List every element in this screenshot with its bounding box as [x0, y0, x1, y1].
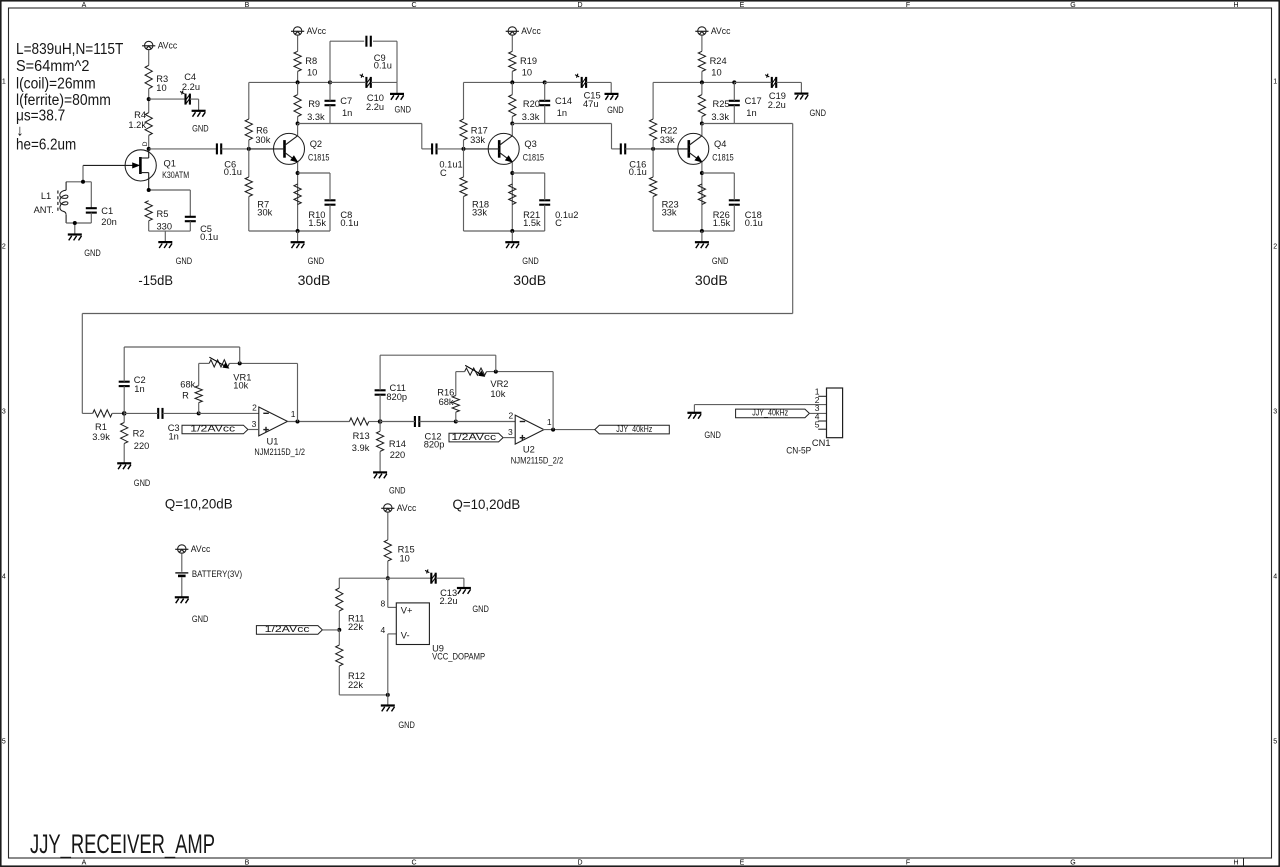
wire C5 to bottom rail	[189, 221, 191, 231]
wire node B to 68k	[198, 403, 200, 414]
svg-text:Q1: Q1	[164, 159, 176, 169]
svg-text:S=64mm^2: S=64mm^2	[16, 58, 89, 75]
junction bottom rail stage 4	[700, 229, 704, 233]
svg-text:L1: L1	[41, 191, 51, 201]
svg-text:R24: R24	[710, 56, 727, 66]
svg-text:C: C	[411, 2, 416, 9]
ground (antenna tank)	[68, 235, 101, 259]
resistor R8 10	[294, 51, 317, 77]
junction node A	[122, 411, 127, 416]
wire collector node rail	[298, 123, 330, 125]
svg-text:AVcc: AVcc	[158, 41, 178, 51]
resistor R22 33k	[650, 119, 678, 145]
resistor R5 330	[145, 201, 172, 232]
svg-text:220: 220	[134, 441, 150, 451]
net label 1/2AVcc (U1 pin3)	[182, 424, 248, 434]
svg-text:AVcc: AVcc	[191, 544, 211, 554]
wire C9 loop right	[396, 41, 398, 82]
ground (stage 1)	[158, 242, 192, 266]
ground (stage 3)	[505, 242, 539, 266]
svg-text:A: A	[82, 860, 87, 867]
net label 1/2AVcc (U2 pin3)	[449, 432, 503, 442]
wire emitter Q4 down	[701, 162, 703, 231]
wire R25 to collector node	[701, 117, 703, 124]
wire C2 rail down to VR1 line	[239, 347, 241, 363]
wire C1 to tank bottom	[90, 213, 92, 223]
capacitor C16 0.1u (coupling stage3-4)	[621, 143, 647, 177]
capacitor C11 820p	[375, 383, 407, 402]
wire rail to R25	[701, 82, 703, 94]
wire R15 to node E	[387, 561, 389, 578]
wire bias column stage 3 upper	[463, 82, 465, 119]
junction emitter node Q2	[296, 171, 300, 175]
capacitor C10 labels	[366, 93, 384, 112]
wire R4 to drain node	[148, 135, 150, 149]
junction source node	[147, 188, 151, 192]
capacitor C18 0.1u	[729, 200, 763, 228]
capacitor C15 47u (electrolytic)	[575, 74, 586, 88]
ground (C13)	[457, 588, 489, 614]
capacitor 0.1u2 C	[539, 200, 578, 228]
svg-text:C: C	[555, 218, 562, 228]
junction supply rail / R20	[510, 80, 514, 84]
svg-text:30dB: 30dB	[513, 272, 546, 288]
svg-text:1.5k: 1.5k	[308, 218, 326, 228]
wire collector node rail	[512, 123, 544, 125]
wire R16 to VR2	[455, 372, 457, 396]
svg-text:10: 10	[711, 68, 721, 78]
wire rail to R9	[297, 82, 299, 94]
svg-text:VCC_DOPAMP: VCC_DOPAMP	[432, 652, 485, 662]
wire R18 to bottom rail	[463, 197, 465, 232]
svg-text:GND: GND	[308, 256, 325, 266]
gain label Q=10,20dB (U2)	[453, 496, 521, 512]
svg-text:1n: 1n	[342, 108, 352, 118]
svg-text:GND: GND	[607, 105, 624, 115]
svg-text:U1: U1	[267, 436, 279, 446]
junction divider node	[337, 628, 341, 632]
svg-text:C1815: C1815	[308, 153, 329, 163]
svg-text:1: 1	[547, 417, 552, 427]
svg-text:0.1u: 0.1u	[745, 218, 763, 228]
wire GND net to CN1 pin2	[694, 404, 826, 406]
ground (stage 2)	[291, 242, 325, 266]
inductor L1 ANT. (antenna bar coil)	[34, 182, 68, 223]
svg-text:Q2: Q2	[310, 139, 322, 149]
op-amp supply block U9 VCC_DOPAMP	[396, 603, 485, 662]
annotation text block (coil parameters)	[16, 41, 124, 154]
gain label 30dB (stage 3)	[513, 272, 546, 288]
junction base node Q2	[247, 147, 251, 151]
wire node E to V+ pin	[388, 578, 397, 607]
svg-text:GND: GND	[810, 108, 827, 118]
svg-text:1: 1	[2, 79, 6, 86]
svg-text:C1815: C1815	[523, 153, 544, 163]
svg-text:BATTERY(3V): BATTERY(3V)	[192, 569, 242, 579]
svg-text:AVcc: AVcc	[711, 26, 731, 36]
wire drain node to C6	[149, 148, 217, 150]
svg-text:8: 8	[380, 599, 385, 609]
power symbol AVcc (battery)	[175, 544, 210, 554]
svg-text:L=839uH,N=115T: L=839uH,N=115T	[16, 41, 124, 58]
wire supply rail stage 3	[464, 81, 582, 83]
svg-text:GND: GND	[522, 256, 539, 266]
wire stage4 output long bus	[82, 124, 792, 414]
junction drain node Q1	[147, 147, 151, 151]
resistor R12 22k	[336, 645, 365, 690]
wire collector node to Q2	[297, 124, 299, 136]
svg-text:Q=10,20dB: Q=10,20dB	[453, 496, 521, 512]
ground (R2)	[117, 463, 150, 488]
svg-text:33k: 33k	[472, 207, 487, 217]
svg-text:Q3: Q3	[524, 139, 536, 149]
ground (CN1 pin2)	[687, 413, 721, 440]
svg-text:2: 2	[508, 411, 513, 421]
capacitor C7 1n	[325, 96, 353, 118]
svg-text:10k: 10k	[490, 389, 505, 399]
svg-text:R2: R2	[133, 429, 145, 439]
junction collector node Q2	[296, 122, 300, 126]
wire ground node stem	[387, 695, 389, 706]
svg-text:2.2u: 2.2u	[768, 100, 786, 110]
junction supply rail / C14	[543, 80, 547, 84]
svg-text:AVcc: AVcc	[397, 503, 417, 513]
svg-text:22k: 22k	[348, 680, 363, 690]
connector CN1 CN-5P	[786, 387, 842, 456]
resistor R16 68k (U2 feedback)	[437, 388, 459, 413]
svg-text:R4: R4	[134, 110, 146, 120]
capacitor C5 0.1u	[185, 217, 218, 242]
wire rail to C17	[733, 82, 735, 100]
svg-text:10: 10	[400, 553, 410, 563]
resistor R2 220	[121, 423, 150, 451]
resistor R17 33k	[460, 119, 488, 145]
capacitor C6 0.1u (coupling)	[217, 143, 242, 177]
svg-text:B: B	[245, 860, 250, 867]
svg-text:R1: R1	[95, 422, 107, 432]
wire stage3 collector to coupling	[545, 124, 621, 149]
svg-text:CN1: CN1	[812, 438, 831, 448]
junction base node Q3	[462, 147, 466, 151]
wire C12 to node D	[419, 421, 455, 423]
wire emitter node to C18 top	[733, 173, 735, 200]
svg-text:D: D	[142, 141, 149, 146]
svg-text:3: 3	[2, 409, 6, 416]
wire 68k to VR1	[198, 363, 200, 385]
wire R19 to supply rail	[511, 71, 513, 82]
svg-text:330: 330	[157, 221, 173, 231]
svg-text:GND: GND	[134, 478, 151, 488]
svg-text:1: 1	[291, 409, 296, 419]
wire VR2 line to output	[487, 371, 554, 373]
wire stage 2 bottom rail	[249, 230, 330, 232]
svg-text:5: 5	[1273, 739, 1277, 746]
wire U1 output	[288, 421, 350, 423]
wire 1/2AVcc to U2 pin3	[503, 437, 515, 439]
gain label Q=10,20dB (U1)	[165, 496, 233, 512]
svg-text:K30ATM: K30ATM	[162, 170, 189, 180]
junction supply rail / C17	[732, 80, 736, 84]
svg-text:GND: GND	[704, 430, 721, 440]
resistor R26 1.5k	[698, 184, 730, 228]
battery BATTERY(3V)	[175, 569, 242, 579]
junction bottom rail stage 2	[296, 229, 300, 233]
wire bias column stage 4 upper	[652, 82, 654, 119]
net label JJY_40kHz (U2 output)	[595, 424, 670, 434]
transistor Q1 K30ATM (JFET)	[83, 141, 189, 190]
svg-text:33k: 33k	[470, 135, 485, 145]
svg-text:10: 10	[307, 68, 317, 78]
power symbol AVcc (stage 2)	[291, 26, 326, 36]
capacitor C14 1n	[539, 96, 572, 118]
resistor R9 3.3k	[294, 95, 325, 122]
svg-text:3: 3	[252, 419, 257, 429]
wire R12 to bottom rail	[338, 666, 340, 695]
wire C18 to bottom rail	[733, 205, 735, 231]
svg-text:R20: R20	[523, 99, 540, 109]
wire R11 to divider node	[338, 611, 340, 630]
wire source node	[149, 189, 191, 191]
wire base node down	[248, 149, 250, 177]
svg-text:30k: 30k	[257, 207, 272, 217]
svg-text:Q=10,20dB: Q=10,20dB	[165, 496, 233, 512]
svg-text:D: D	[577, 860, 582, 867]
resistor R3 10	[145, 65, 168, 93]
svg-text:C14: C14	[555, 96, 572, 106]
svg-text:U2: U2	[523, 445, 535, 455]
ground (stage 4)	[695, 242, 729, 266]
wire battery to ground	[181, 577, 183, 597]
wire C6 to Q2 base	[221, 148, 249, 150]
svg-text:R9: R9	[308, 99, 320, 109]
wire bottom rail to ground stage 3	[511, 231, 513, 242]
wire C10 to ground	[371, 82, 397, 93]
wire node D to U2 inverting input	[456, 421, 515, 423]
resistor R24 10	[698, 51, 726, 77]
svg-text:C: C	[440, 168, 447, 178]
wire coupling to Q4 base	[625, 148, 653, 150]
svg-text:4: 4	[2, 574, 6, 581]
svg-text:GND: GND	[192, 614, 209, 624]
wire C17 to C19	[734, 81, 771, 83]
svg-text:30k: 30k	[255, 135, 270, 145]
svg-text:1.2k: 1.2k	[128, 120, 146, 130]
wire R2 to ground	[123, 444, 125, 464]
wire base node down	[463, 149, 465, 177]
wire R1 to node A	[112, 412, 124, 414]
wire C7 to collector rail	[329, 105, 331, 123]
wire VR1 left lead	[199, 362, 210, 364]
svg-text:1.5k: 1.5k	[713, 218, 731, 228]
wire C11 to top rail	[380, 355, 496, 390]
svg-text:B: B	[245, 2, 250, 9]
svg-text:E: E	[740, 2, 745, 9]
wire U1 feedback vertical	[297, 363, 299, 421]
wire node C to C12	[380, 421, 415, 423]
resistor R19 10	[509, 51, 537, 77]
svg-text:JJY_40kHz: JJY_40kHz	[616, 424, 652, 434]
wire power bottom rail	[339, 694, 388, 696]
resistor R25 3.3k	[698, 95, 729, 122]
svg-text:GND: GND	[176, 256, 193, 266]
svg-text:H: H	[1233, 2, 1238, 9]
wire base node down	[652, 149, 654, 177]
ground (R14)	[373, 472, 406, 495]
wire emitter node to 0.1u2	[512, 172, 544, 174]
wire C9 loop left	[329, 41, 331, 82]
svg-text:2: 2	[252, 403, 257, 413]
svg-text:2.2u: 2.2u	[440, 596, 458, 606]
wire U2 output	[543, 429, 595, 431]
wire bottom rail to ground stage 2	[297, 231, 299, 242]
wire node C to C11	[379, 395, 381, 422]
svg-text:he=6.2um: he=6.2um	[16, 136, 76, 153]
svg-text:E: E	[740, 860, 745, 867]
transistor Q3 C1815 (NPN)	[464, 133, 545, 164]
svg-text:F: F	[906, 2, 910, 9]
svg-text:C: C	[411, 860, 416, 867]
svg-text:1n: 1n	[134, 384, 144, 394]
capacitor C17 1n	[729, 96, 762, 118]
wire AVcc to R15	[387, 512, 389, 539]
wire bias column stage 2 upper	[248, 82, 250, 119]
svg-text:820p: 820p	[424, 440, 445, 450]
resistor R10 1.5k	[294, 184, 326, 228]
svg-text:AVcc: AVcc	[307, 26, 327, 36]
wire R6 to base node	[248, 140, 250, 149]
wire 1/2AVcc from divider	[322, 629, 339, 631]
junction node C	[378, 419, 383, 424]
svg-text:R13: R13	[353, 431, 370, 441]
resistor R 68k (U1 feedback)	[180, 380, 202, 403]
junction emitter node Q4	[700, 171, 704, 175]
svg-text:C7: C7	[340, 96, 352, 106]
svg-text:2.2u: 2.2u	[366, 102, 384, 112]
wire R9 to collector node	[297, 117, 299, 124]
wire emitter node to C8	[298, 172, 330, 174]
svg-text:3: 3	[1273, 409, 1277, 416]
resistor R23 33k	[650, 177, 679, 217]
svg-text:1/2AVcc: 1/2AVcc	[451, 432, 496, 442]
wire R3 to R4 through node	[148, 89, 150, 113]
svg-text:68k: 68k	[439, 397, 454, 407]
svg-text:V+: V+	[401, 605, 413, 615]
junction VR1 / C2 rail	[238, 361, 242, 365]
wire stage2 collector to coupling	[330, 124, 432, 149]
svg-text:10: 10	[522, 68, 532, 78]
svg-text:F: F	[906, 860, 910, 867]
svg-text:H: H	[1233, 860, 1238, 867]
svg-text:820p: 820p	[386, 392, 407, 402]
wire C4 to ground	[190, 99, 199, 111]
svg-text:GND: GND	[389, 486, 406, 496]
svg-text:20n: 20n	[101, 217, 117, 227]
svg-text:CN-5P: CN-5P	[786, 446, 811, 456]
svg-text:5: 5	[2, 739, 6, 746]
svg-text:G: G	[1070, 2, 1075, 9]
junction U1 output / feedback	[296, 420, 300, 424]
power symbol AVcc (stage 3)	[506, 26, 541, 36]
wire 0.1u2 to bottom rail	[544, 205, 546, 231]
resistor R7 30k	[245, 177, 272, 217]
resistor R4 1.2k	[128, 110, 152, 135]
capacitor C13 2.2u (electrolytic)	[425, 569, 458, 606]
svg-text:220: 220	[390, 450, 406, 460]
wire AVcc to R3	[148, 50, 150, 66]
wire bus to R1	[82, 412, 92, 414]
wire collector node to Q4	[701, 124, 703, 136]
svg-text:0.1u: 0.1u	[224, 167, 242, 177]
wire node E to C13	[388, 577, 431, 579]
wire R14 to ground	[379, 451, 381, 472]
wire tank top rail	[66, 181, 91, 183]
wire C19 to ground	[776, 82, 801, 93]
power symbol AVcc (stage 1)	[142, 41, 177, 51]
junction node R3/R4/C4	[147, 97, 151, 101]
gain label -15dB	[138, 272, 173, 288]
resistor R18 33k	[460, 177, 489, 217]
svg-text:C1: C1	[101, 206, 113, 216]
wire AVcc to R19	[511, 35, 513, 51]
wire AVcc to R24	[701, 35, 703, 51]
svg-text:10k: 10k	[233, 380, 248, 390]
gain label 30dB (stage 2)	[298, 272, 331, 288]
wire stage1 bottom rail	[149, 230, 191, 232]
wire C3 to node B	[163, 412, 199, 414]
capacitor C9 0.1u (feedback loop)	[366, 36, 392, 71]
svg-text:R5: R5	[157, 209, 169, 219]
wire C14 to collector rail	[544, 105, 546, 123]
junction node D	[454, 420, 458, 424]
svg-text:5: 5	[815, 420, 820, 430]
svg-text:3.3k: 3.3k	[522, 112, 540, 122]
svg-text:2: 2	[2, 244, 6, 251]
wire node A to R2	[123, 413, 125, 422]
wire 1/2AVcc to U1 pin3	[248, 429, 259, 431]
capacitor C19 2.2u (electrolytic)	[765, 74, 776, 88]
resistor R13 3.9k	[349, 418, 369, 453]
resistor R15 10	[384, 540, 414, 564]
junction supply rail / R25	[700, 80, 704, 84]
wire R8 to supply rail	[297, 71, 299, 82]
svg-text:3.9k: 3.9k	[352, 443, 370, 453]
svg-text:1.5k: 1.5k	[523, 218, 541, 228]
capacitor C19 labels	[768, 91, 786, 110]
svg-text:C4: C4	[184, 72, 196, 82]
pin 4 label	[380, 625, 385, 635]
svg-text:33k: 33k	[662, 207, 677, 217]
junction base node Q4	[651, 147, 655, 151]
wire collector node rail	[702, 123, 734, 125]
svg-text:G: G	[1070, 860, 1075, 867]
wire R20 to collector node	[511, 117, 513, 124]
svg-text:1: 1	[1273, 79, 1277, 86]
svg-text:47u: 47u	[583, 99, 599, 109]
svg-text:R25: R25	[713, 99, 730, 109]
power symbol AVcc (regulator)	[381, 503, 416, 513]
svg-text:ANT.: ANT.	[34, 205, 54, 215]
svg-text:R19: R19	[520, 56, 537, 66]
wire collector node to Q3	[511, 124, 513, 136]
wire R24 to supply rail	[701, 71, 703, 82]
wire AVcc to battery	[181, 553, 183, 571]
svg-text:68k: 68k	[180, 380, 195, 390]
junction node B	[197, 411, 201, 415]
svg-text:NJM2115D_1/2: NJM2115D_1/2	[254, 447, 305, 457]
wire emitter node to 0.1u2 top	[544, 173, 546, 200]
svg-text:R16: R16	[437, 388, 454, 398]
wire VR1 line to output	[229, 362, 297, 364]
